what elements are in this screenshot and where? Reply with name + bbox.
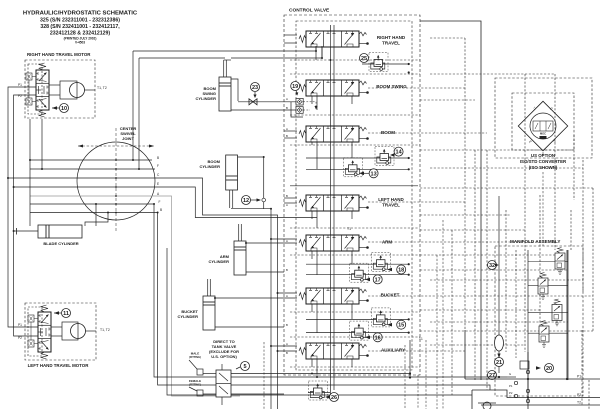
svg-text:27: 27 <box>489 373 495 379</box>
svg-text:T1: T1 <box>532 106 537 111</box>
svg-text:ISO/STD CONVERTER: ISO/STD CONVERTER <box>520 159 567 164</box>
svg-text:G: G <box>509 372 511 376</box>
svg-text:P1: P1 <box>577 375 581 379</box>
svg-text:21: 21 <box>496 360 502 366</box>
svg-text:BUCKET: BUCKET <box>381 293 400 298</box>
svg-text:P2: P2 <box>509 391 513 395</box>
svg-text:F: F <box>159 200 161 204</box>
svg-text:11: 11 <box>63 311 69 317</box>
svg-text:B: B <box>286 134 288 138</box>
svg-text:A: A <box>286 97 288 101</box>
svg-text:F: F <box>157 164 159 168</box>
svg-text:US OPTION: US OPTION <box>531 153 555 158</box>
svg-text:13: 13 <box>371 171 377 177</box>
svg-text:CYLINDER: CYLINDER <box>209 259 230 264</box>
svg-text:T1: T1 <box>419 337 423 341</box>
svg-text:MGC: MGC <box>540 132 546 136</box>
svg-text:5: 5 <box>243 364 246 370</box>
svg-text:B: B <box>157 156 159 160</box>
svg-text:A: A <box>286 239 288 243</box>
svg-text:U.S. OPTION): U.S. OPTION) <box>211 354 237 359</box>
svg-text:(FITTING): (FITTING) <box>189 355 201 359</box>
svg-text:B: B <box>286 351 288 355</box>
svg-text:B: B <box>286 194 288 198</box>
svg-text:328 (S/N 232411001 - 232412117: 328 (S/N 232411001 - 232412117, <box>40 24 120 30</box>
svg-text:P2: P2 <box>577 393 581 397</box>
svg-text:TRAVEL: TRAVEL <box>382 41 400 46</box>
svg-text:BOOM: BOOM <box>381 130 395 135</box>
svg-text:P1: P1 <box>549 105 554 110</box>
svg-text:E: E <box>157 182 159 186</box>
svg-text:MANIFOLD ASSEMBLY: MANIFOLD ASSEMBLY <box>510 239 560 244</box>
svg-text:(FITTING): (FITTING) <box>189 383 201 387</box>
svg-text:TRAVEL: TRAVEL <box>382 203 400 208</box>
svg-text:V-4503: V-4503 <box>75 41 85 45</box>
svg-text:RIGHT HAND TRAVEL MOTOR: RIGHT HAND TRAVEL MOTOR <box>27 52 91 57</box>
svg-text:32: 32 <box>489 263 495 269</box>
svg-text:JOINT: JOINT <box>122 136 134 141</box>
svg-text:25: 25 <box>361 56 367 62</box>
svg-text:17: 17 <box>375 277 381 283</box>
svg-text:T2: T2 <box>577 401 581 405</box>
svg-text:P1: P1 <box>18 83 22 87</box>
svg-text:A: A <box>286 203 288 207</box>
svg-text:CYLINDER: CYLINDER <box>178 314 199 319</box>
svg-text:(ISO SHOWN): (ISO SHOWN) <box>529 165 558 170</box>
svg-text:14: 14 <box>396 150 403 156</box>
svg-text:A1: A1 <box>528 138 533 143</box>
svg-text:B: B <box>286 268 288 272</box>
svg-text:23: 23 <box>252 85 258 91</box>
svg-text:20: 20 <box>546 366 552 372</box>
svg-text:A: A <box>286 294 288 298</box>
svg-text:P2: P2 <box>18 94 22 98</box>
svg-text:A: A <box>286 127 288 131</box>
svg-text:LEFT HAND TRAVEL MOTOR: LEFT HAND TRAVEL MOTOR <box>28 363 90 368</box>
svg-text:CONTROL VALVE: CONTROL VALVE <box>289 8 330 14</box>
svg-text:CYLINDER: CYLINDER <box>196 96 217 101</box>
svg-text:RIGHT HAND: RIGHT HAND <box>377 35 406 40</box>
svg-text:325 (S/N 232311001 - 232312386: 325 (S/N 232311001 - 232312386) <box>40 18 120 24</box>
svg-text:T1, T2: T1, T2 <box>100 328 110 332</box>
svg-text:A: A <box>157 192 160 196</box>
svg-text:CYLINDER: CYLINDER <box>200 164 221 169</box>
svg-text:LEFT HAND: LEFT HAND <box>378 197 404 202</box>
svg-text:BLADE CYLINDER: BLADE CYLINDER <box>43 241 78 246</box>
svg-text:T1, T2: T1, T2 <box>97 86 107 90</box>
svg-text:T1: T1 <box>347 227 351 231</box>
svg-text:A: A <box>286 342 288 346</box>
svg-text:19: 19 <box>292 84 298 90</box>
svg-text:16: 16 <box>375 335 381 341</box>
svg-text:FEMALE: FEMALE <box>189 379 201 383</box>
svg-text:AUXILIARY: AUXILIARY <box>381 348 405 353</box>
svg-text:MALE: MALE <box>191 352 200 356</box>
svg-text:15: 15 <box>398 323 404 329</box>
svg-text:B: B <box>286 323 288 327</box>
svg-text:18: 18 <box>398 268 404 274</box>
svg-text:HYDRAULIC/HYDROSTATIC SCHEMATI: HYDRAULIC/HYDROSTATIC SCHEMATIC <box>23 11 138 17</box>
svg-text:12: 12 <box>243 198 249 204</box>
svg-text:B: B <box>286 106 288 110</box>
svg-text:P2: P2 <box>18 336 22 340</box>
svg-text:C: C <box>157 173 160 177</box>
svg-text:P1: P1 <box>509 384 513 388</box>
svg-text:26: 26 <box>331 395 337 401</box>
svg-text:B: B <box>160 208 162 212</box>
svg-text:10: 10 <box>61 106 67 112</box>
svg-text:P1: P1 <box>18 323 22 327</box>
